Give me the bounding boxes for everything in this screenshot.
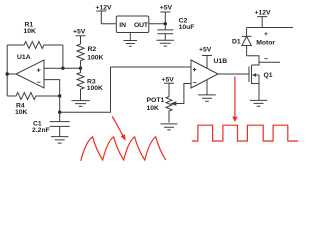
wire: U1A output to left vertical bus <box>7 73 16 75</box>
svg-text:OUT: OUT <box>134 22 149 29</box>
potentiometer POT1 <box>147 84 192 123</box>
wire: U1A + input <box>44 67 81 69</box>
svg-text:100K: 100K <box>87 54 103 61</box>
resistor R1 <box>7 22 63 49</box>
motor terminal labels <box>256 31 275 63</box>
diode D1 <box>232 28 251 56</box>
wire: U1A - input to R4/C1 node <box>44 80 60 96</box>
svg-text:+5V: +5V <box>73 29 86 36</box>
svg-text:U1A: U1A <box>17 54 31 61</box>
wire: U1B ground stub <box>206 78 208 95</box>
svg-text:+: + <box>264 31 268 38</box>
svg-text:IN: IN <box>119 22 126 29</box>
ground (R3) <box>72 101 90 107</box>
square waveform <box>192 125 299 141</box>
power +12V (motor supply) <box>255 9 272 27</box>
node: U1A output junction <box>6 72 9 75</box>
wire: regulator ground stub <box>129 33 131 41</box>
svg-text:+: + <box>193 67 197 74</box>
wire: U1B output to Q1 gate <box>218 73 249 75</box>
annotation arrow to sawtooth <box>112 116 125 140</box>
power +12V (regulator input) <box>96 4 117 24</box>
svg-text:+5V: +5V <box>162 76 175 83</box>
svg-text:10uF: 10uF <box>179 24 195 31</box>
ground (POT1) <box>161 124 178 130</box>
wire: down to C1 <box>59 96 61 112</box>
svg-text:Motor: Motor <box>256 40 275 47</box>
svg-text:U1B: U1B <box>214 58 228 65</box>
power +5V (R2 divider) <box>73 29 86 45</box>
ground (C1) <box>51 137 68 144</box>
node: +5V / C2 junction <box>164 22 167 25</box>
wire: diode anode to Q1 drain <box>247 56 259 65</box>
resistor R2 <box>77 44 104 68</box>
svg-text:2.2nF: 2.2nF <box>32 127 50 134</box>
svg-text:Q1: Q1 <box>264 72 273 79</box>
op-amp U1B <box>191 58 227 88</box>
svg-text:100K: 100K <box>87 85 103 92</box>
svg-text:+5V: +5V <box>199 46 212 53</box>
svg-text:10K: 10K <box>147 105 160 112</box>
node: feedback junction <box>61 67 64 70</box>
power +5V (regulator output) <box>160 4 173 24</box>
resistor R3 <box>77 68 103 100</box>
capacitor C2 <box>157 17 194 40</box>
node: R2/R3 divider junction <box>79 67 82 70</box>
ground (regulator) <box>124 41 138 47</box>
ground (U1B) <box>198 95 216 101</box>
svg-text:+12V: +12V <box>255 9 272 16</box>
wire: regulator OUT to +5V node <box>149 23 166 25</box>
svg-text:10K: 10K <box>24 28 37 35</box>
voltage regulator box <box>116 16 149 33</box>
wire: top rail <box>247 27 293 29</box>
svg-text:−: − <box>37 80 41 87</box>
svg-text:−: − <box>193 80 197 87</box>
svg-text:+12V: +12V <box>96 4 113 11</box>
wire: left vertical feedback bus <box>6 45 8 96</box>
node: R4 / C1 junction <box>58 94 61 97</box>
transistor Q1 <box>249 65 273 100</box>
power +5V (POT1) <box>162 76 175 96</box>
wire: R1 to noninverting input wire <box>62 45 64 68</box>
op-amp U1A <box>16 54 44 88</box>
node: C1 top junction <box>58 111 61 114</box>
power +5V (U1B) <box>199 46 212 70</box>
ground (Q1) <box>250 100 267 106</box>
resistor R4 <box>7 93 60 117</box>
wire: motor negative rail <box>259 61 280 63</box>
annotation arrow to square wave <box>232 77 237 122</box>
svg-text:+: + <box>37 67 41 74</box>
svg-text:D1: D1 <box>232 39 241 46</box>
ground (C2) <box>157 40 175 46</box>
sawtooth waveform <box>81 137 166 161</box>
svg-text:POT1: POT1 <box>147 97 165 104</box>
svg-text:10K: 10K <box>15 109 28 116</box>
wire: C1 node to U1B + input <box>60 67 191 112</box>
svg-text:R2: R2 <box>88 46 97 53</box>
svg-text:+5V: +5V <box>160 4 173 11</box>
capacitor C1 <box>32 112 70 136</box>
